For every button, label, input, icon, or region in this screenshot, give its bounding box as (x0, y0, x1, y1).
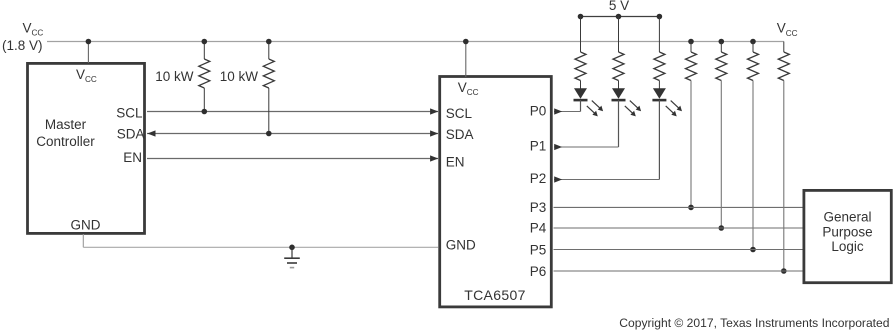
node junction on VCC rail at R8 (750, 39, 756, 45)
wire Master GND stub (82, 234, 84, 247)
LED light emission arrows for D2 on P1 (630, 101, 638, 109)
node junction R8 to P5 line (750, 247, 756, 253)
wire LED cathode to P0 line (580, 100, 582, 111)
svg-text:SCL: SCL (446, 106, 473, 121)
resistor R9 on P6 pull-up (783, 42, 785, 53)
arrowhead P0 output (554, 108, 562, 114)
svg-text:Master: Master (45, 117, 87, 132)
node junction R1 to SCL (202, 109, 208, 115)
resistor R4 LED series (613, 52, 624, 81)
svg-text:10 kW: 10 kW (220, 69, 259, 84)
resistor R8 on P5 pull-up (752, 42, 754, 53)
svg-text:Controller: Controller (36, 134, 95, 149)
node junction R2 to SDA (266, 131, 272, 137)
arrowhead SDA into Master Controller (147, 130, 155, 136)
wire TCA6507 VCC stub (465, 42, 467, 78)
svg-text:P0: P0 (530, 104, 547, 119)
node junction R9 to P6 line (781, 268, 787, 274)
svg-text:TCA6507: TCA6507 (464, 287, 526, 303)
node junction on 5V rail for LED D3 on P2 (657, 14, 663, 20)
arrowhead P2 output (554, 176, 562, 182)
arrowhead SCL into TCA6507 (430, 108, 438, 114)
wire VCC 1.8V power rail (47, 41, 784, 43)
wire P4 to General Purpose Logic (554, 227, 804, 229)
svg-text:P4: P4 (530, 221, 547, 236)
svg-text:Logic: Logic (831, 239, 864, 254)
arrowhead EN into TCA6507 (430, 155, 438, 161)
svg-text:P3: P3 (530, 200, 547, 215)
block TCA6507 U1 (440, 77, 552, 307)
svg-text:VCC: VCC (777, 21, 798, 38)
LED light emission arrows for D3 on P2 (671, 101, 679, 109)
svg-text:General: General (823, 209, 871, 224)
svg-text:SDA: SDA (117, 127, 145, 142)
LED D2 on P1 (612, 88, 625, 99)
wire P0 to LED branch (554, 111, 581, 113)
node junction on 5V rail for LED D2 on P1 (616, 14, 622, 20)
wire 5V rail (581, 16, 660, 18)
resistor R5 LED series (654, 52, 665, 81)
block Master Controller (28, 63, 145, 233)
LED D1 on P0 (574, 88, 587, 99)
wire resistor R3 to LED (580, 81, 582, 90)
node junction on VCC rail at R1 (202, 39, 208, 45)
wire 5V to resistor R5 (658, 17, 660, 53)
wire P5 to General Purpose Logic (554, 249, 804, 251)
ground symbol (291, 247, 293, 257)
resistor R1 10 kW pull-up on SCL (203, 42, 205, 60)
resistor R7 on P4 pull-up (720, 42, 722, 53)
resistor R6 on P3 pull-up (690, 42, 692, 53)
wire Master VCC stub (87, 42, 89, 64)
wire 5V to resistor R3 (580, 17, 582, 53)
resistor R2 10 kW pull-up on SDA (268, 42, 270, 60)
wire SDA bus (147, 133, 438, 135)
wire LED cathode to P2 line (658, 100, 660, 179)
node junction on VCC rail at R7 (719, 39, 725, 45)
svg-text:EN: EN (123, 150, 142, 165)
wire resistor R5 to LED (658, 81, 660, 90)
wire P2 to LED branch (554, 179, 659, 181)
svg-text:Copyright © 2017, Texas Instru: Copyright © 2017, Texas Instruments Inco… (619, 316, 889, 330)
node junction GND at ground symbol (289, 245, 295, 251)
node junction on VCC rail at R2 (266, 39, 272, 45)
svg-text:P1: P1 (530, 138, 547, 153)
svg-text:VCC: VCC (76, 67, 97, 84)
LED light emission arrows for D1 on P0 (592, 101, 600, 109)
wire 5V to resistor R4 (618, 17, 620, 53)
wire P3 to General Purpose Logic (554, 206, 804, 208)
block General Purpose Logic (804, 190, 891, 282)
wire LED cathode to P1 line (618, 100, 620, 147)
svg-text:SDA: SDA (446, 127, 474, 142)
node junction R6 to P3 line (688, 205, 694, 211)
svg-text:(1.8 V): (1.8 V) (2, 38, 43, 53)
svg-text:EN: EN (446, 154, 465, 169)
svg-text:VCC: VCC (458, 80, 479, 97)
LED D3 on P2 (653, 88, 666, 99)
wire GND bus (83, 246, 438, 248)
wire EN line (147, 158, 438, 160)
node junction on 5V rail for LED D1 on P0 (578, 14, 584, 20)
wire P6 to General Purpose Logic (554, 270, 804, 272)
wire resistor R4 to LED (618, 81, 620, 90)
node junction on VCC rail at R6 (688, 39, 694, 45)
svg-text:P5: P5 (530, 242, 547, 257)
svg-text:5 V: 5 V (609, 0, 629, 13)
arrowhead P1 output (554, 144, 562, 150)
svg-text:GND: GND (446, 237, 476, 252)
svg-text:VCC: VCC (23, 21, 44, 38)
svg-text:GND: GND (71, 218, 101, 233)
wire SCL bus (147, 111, 438, 113)
svg-text:SCL: SCL (116, 106, 143, 121)
svg-text:Purpose: Purpose (822, 224, 872, 239)
svg-text:P2: P2 (530, 171, 547, 186)
node junction R7 to P4 line (719, 225, 725, 231)
svg-text:P6: P6 (530, 264, 547, 279)
node junction on VCC rail at Master (86, 39, 92, 45)
arrowhead SDA into TCA6507 (430, 130, 438, 136)
node junction on VCC rail at TCA6507 (463, 39, 469, 45)
svg-text:10 kW: 10 kW (155, 69, 194, 84)
wire P1 to LED branch (554, 146, 619, 148)
resistor R3 LED series (575, 52, 586, 81)
